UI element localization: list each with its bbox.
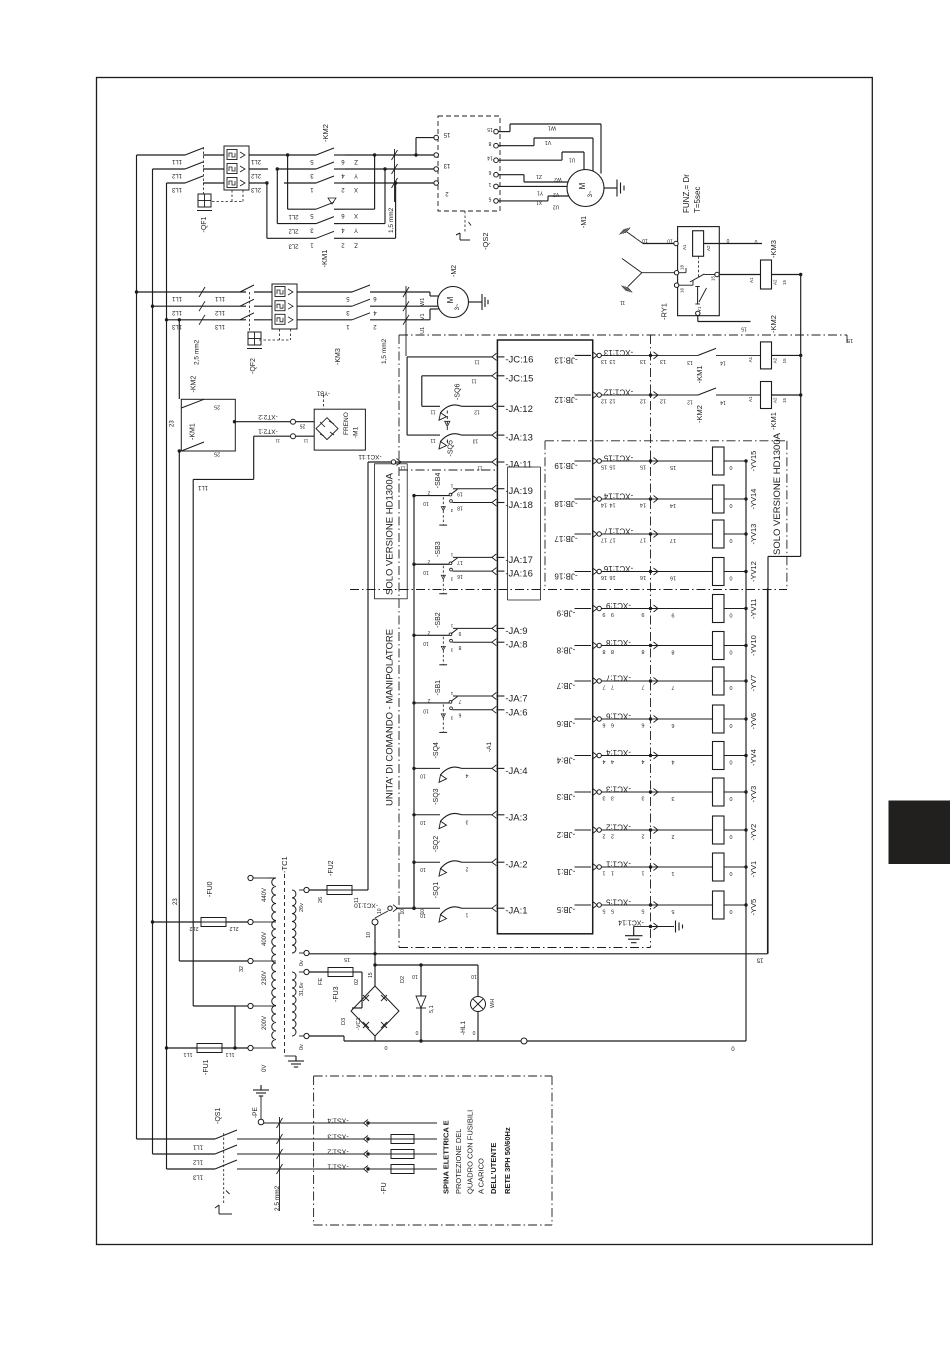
svg-text:2: 2 bbox=[427, 697, 430, 703]
svg-text:-KM2: -KM2 bbox=[321, 124, 330, 142]
svg-text:A CARICO: A CARICO bbox=[477, 1158, 486, 1194]
svg-text:18: 18 bbox=[680, 264, 685, 270]
svg-text:-JA:12: -JA:12 bbox=[505, 404, 532, 415]
svg-text:10: 10 bbox=[642, 237, 648, 243]
svg-text:0: 0 bbox=[754, 238, 757, 244]
svg-text:1L1: 1L1 bbox=[192, 1144, 203, 1150]
svg-text:9: 9 bbox=[602, 611, 605, 617]
svg-text:X1: X1 bbox=[536, 199, 542, 205]
svg-text:-JA:7: -JA:7 bbox=[505, 694, 527, 705]
svg-text:7: 7 bbox=[671, 684, 674, 690]
svg-text:M: M bbox=[446, 296, 455, 303]
svg-text:A2: A2 bbox=[706, 245, 711, 251]
svg-text:-XC1:2: -XC1:2 bbox=[606, 823, 631, 832]
svg-text:-JA:11: -JA:11 bbox=[505, 460, 532, 471]
svg-text:-QF1: -QF1 bbox=[201, 216, 208, 232]
svg-text:-JB:4: -JB:4 bbox=[556, 756, 575, 765]
svg-text:17: 17 bbox=[609, 537, 615, 543]
svg-text:16: 16 bbox=[609, 574, 615, 580]
svg-text:1L3: 1L3 bbox=[192, 1174, 203, 1180]
svg-text:1L3: 1L3 bbox=[171, 186, 182, 192]
svg-text:2: 2 bbox=[671, 833, 674, 839]
svg-text:13: 13 bbox=[473, 438, 479, 444]
svg-text:19: 19 bbox=[457, 491, 463, 497]
svg-text:-TC1: -TC1 bbox=[280, 856, 289, 873]
svg-text:15: 15 bbox=[670, 464, 676, 470]
svg-text:2: 2 bbox=[427, 629, 430, 635]
svg-text:-JA:1: -JA:1 bbox=[505, 906, 527, 917]
svg-text:-YB1: -YB1 bbox=[316, 390, 330, 396]
svg-text:2,5 mm2: 2,5 mm2 bbox=[274, 1185, 281, 1211]
svg-text:0v: 0v bbox=[299, 1044, 305, 1050]
svg-text:11: 11 bbox=[400, 465, 405, 471]
svg-text:SOLO VERSIONE HD1300A: SOLO VERSIONE HD1300A bbox=[385, 472, 396, 595]
svg-text:10: 10 bbox=[420, 866, 426, 872]
svg-text:5: 5 bbox=[671, 908, 674, 914]
svg-text:1,5 mm2: 1,5 mm2 bbox=[388, 207, 395, 233]
svg-text:-KM1: -KM1 bbox=[320, 250, 329, 268]
svg-text:0: 0 bbox=[729, 649, 732, 655]
svg-text:14: 14 bbox=[720, 359, 726, 365]
svg-text:SPINA ELETTRICA E: SPINA ELETTRICA E bbox=[442, 1120, 451, 1194]
svg-text:-YV10: -YV10 bbox=[749, 635, 758, 656]
svg-text:V1: V1 bbox=[420, 313, 426, 320]
svg-text:2: 2 bbox=[427, 558, 430, 564]
svg-text:4: 4 bbox=[641, 758, 644, 764]
svg-text:0: 0 bbox=[729, 722, 732, 728]
svg-text:-JB:13: -JB:13 bbox=[554, 355, 578, 364]
svg-text:V1: V1 bbox=[545, 139, 552, 145]
svg-text:-JB:1: -JB:1 bbox=[556, 867, 575, 876]
svg-text:25: 25 bbox=[300, 423, 306, 429]
svg-text:-JB:17: -JB:17 bbox=[554, 534, 578, 543]
svg-text:-JA:13: -JA:13 bbox=[505, 433, 532, 444]
svg-text:-KM2: -KM2 bbox=[191, 376, 198, 393]
svg-text:-JB:18: -JB:18 bbox=[554, 499, 578, 508]
svg-text:Y: Y bbox=[354, 172, 358, 178]
svg-text:32: 32 bbox=[239, 966, 245, 972]
svg-text:-JA:4: -JA:4 bbox=[505, 766, 527, 777]
svg-text:-PE: -PE bbox=[252, 1107, 259, 1119]
svg-text:A2: A2 bbox=[773, 357, 778, 363]
svg-text:-JC:15: -JC:15 bbox=[505, 373, 533, 384]
svg-text:W1: W1 bbox=[548, 125, 556, 131]
svg-text:-XC1:6: -XC1:6 bbox=[606, 712, 631, 721]
svg-text:1: 1 bbox=[602, 870, 605, 876]
svg-text:-YV12: -YV12 bbox=[749, 561, 758, 582]
svg-text:1L1: 1L1 bbox=[197, 484, 208, 490]
svg-text:13: 13 bbox=[687, 359, 693, 365]
svg-text:-JB:2: -JB:2 bbox=[556, 830, 575, 839]
svg-text:4: 4 bbox=[671, 759, 674, 765]
svg-text:11: 11 bbox=[471, 377, 476, 383]
svg-text:6: 6 bbox=[488, 169, 491, 175]
svg-text:10: 10 bbox=[420, 772, 426, 778]
svg-text:0: 0 bbox=[415, 1029, 418, 1035]
svg-text:SOLO VERSIONE HD1300A: SOLO VERSIONE HD1300A bbox=[772, 432, 783, 555]
svg-text:A1: A1 bbox=[748, 396, 753, 402]
svg-text:26: 26 bbox=[318, 897, 324, 903]
svg-text:X: X bbox=[354, 212, 358, 218]
svg-text:25: 25 bbox=[214, 451, 220, 457]
svg-text:-JA:9: -JA:9 bbox=[505, 626, 527, 637]
svg-text:14: 14 bbox=[601, 502, 607, 508]
svg-text:10: 10 bbox=[420, 819, 426, 825]
svg-text:-KM1: -KM1 bbox=[695, 365, 704, 383]
svg-text:2L2: 2L2 bbox=[189, 925, 198, 931]
svg-text:-KM3: -KM3 bbox=[335, 348, 342, 365]
svg-text:6: 6 bbox=[458, 712, 461, 718]
svg-text:-KM3: -KM3 bbox=[769, 240, 778, 258]
svg-text:15: 15 bbox=[711, 275, 716, 281]
svg-text:15: 15 bbox=[368, 972, 374, 978]
svg-text:-XC1:4: -XC1:4 bbox=[606, 748, 631, 757]
svg-text:9: 9 bbox=[641, 611, 644, 617]
svg-text:1L1: 1L1 bbox=[214, 295, 225, 301]
svg-text:15: 15 bbox=[741, 326, 747, 332]
svg-text:0: 0 bbox=[384, 1044, 387, 1050]
svg-text:15: 15 bbox=[847, 337, 853, 343]
svg-text:-XS1:2: -XS1:2 bbox=[327, 1148, 349, 1155]
svg-text:440V: 440V bbox=[262, 888, 268, 902]
svg-text:Z: Z bbox=[354, 158, 358, 164]
svg-text:-VC1: -VC1 bbox=[356, 1017, 362, 1030]
svg-text:17: 17 bbox=[670, 537, 676, 543]
svg-text:-KM1: -KM1 bbox=[190, 423, 197, 440]
svg-text:200V: 200V bbox=[262, 1016, 268, 1030]
svg-text:-SB3: -SB3 bbox=[435, 541, 442, 557]
svg-text:-JA:8: -JA:8 bbox=[505, 640, 527, 651]
svg-text:9: 9 bbox=[458, 630, 461, 636]
svg-text:U1: U1 bbox=[569, 157, 576, 163]
svg-text:8: 8 bbox=[488, 140, 491, 146]
svg-text:230V: 230V bbox=[262, 971, 268, 985]
svg-text:-XC1:9: -XC1:9 bbox=[606, 601, 631, 610]
svg-text:11: 11 bbox=[303, 439, 308, 444]
svg-text:10: 10 bbox=[366, 932, 372, 938]
svg-text:-JB:8: -JB:8 bbox=[556, 646, 575, 655]
svg-text:0: 0 bbox=[729, 908, 732, 914]
svg-text:1L1: 1L1 bbox=[171, 295, 182, 301]
svg-text:0: 0 bbox=[729, 833, 732, 839]
svg-text:-YV15: -YV15 bbox=[749, 451, 758, 472]
svg-text:15: 15 bbox=[782, 397, 787, 403]
svg-text:-XS1:4: -XS1:4 bbox=[327, 1117, 349, 1124]
svg-text:-XC1:14: -XC1:14 bbox=[603, 492, 633, 501]
svg-text:0: 0 bbox=[472, 1029, 475, 1035]
svg-text:8: 8 bbox=[458, 644, 461, 650]
svg-text:-RY1: -RY1 bbox=[660, 303, 669, 320]
svg-text:10: 10 bbox=[412, 973, 418, 979]
svg-text:1L3: 1L3 bbox=[214, 323, 225, 329]
svg-text:1: 1 bbox=[611, 870, 614, 876]
svg-text:-FU0: -FU0 bbox=[207, 881, 214, 897]
svg-text:16: 16 bbox=[640, 574, 646, 580]
svg-text:-A1: -A1 bbox=[486, 742, 493, 753]
svg-text:0: 0 bbox=[729, 759, 732, 765]
svg-text:5: 5 bbox=[488, 195, 491, 201]
svg-text:-XC1:17: -XC1:17 bbox=[603, 527, 633, 536]
svg-text:RETE 3PH 50/60Hz: RETE 3PH 50/60Hz bbox=[503, 1127, 512, 1194]
svg-text:2L3: 2L3 bbox=[288, 242, 299, 248]
svg-text:12: 12 bbox=[474, 409, 480, 415]
svg-text:PROTEZIONE DEL: PROTEZIONE DEL bbox=[454, 1129, 463, 1194]
svg-text:13: 13 bbox=[640, 358, 646, 364]
svg-text:400V: 400V bbox=[262, 932, 268, 946]
svg-text:-QF2: -QF2 bbox=[250, 358, 257, 374]
svg-text:-XC1:7: -XC1:7 bbox=[606, 674, 631, 683]
svg-text:2L2: 2L2 bbox=[250, 172, 261, 178]
svg-text:31,6v: 31,6v bbox=[299, 982, 305, 996]
svg-text:2: 2 bbox=[465, 866, 468, 872]
svg-text:10: 10 bbox=[423, 569, 429, 575]
svg-text:-YV14: -YV14 bbox=[749, 489, 758, 510]
svg-text:4: 4 bbox=[602, 758, 605, 764]
svg-text:0v: 0v bbox=[299, 960, 305, 966]
svg-text:D3: D3 bbox=[341, 1018, 347, 1025]
svg-text:FE: FE bbox=[318, 978, 324, 985]
svg-text:11: 11 bbox=[430, 437, 435, 443]
svg-text:A1: A1 bbox=[748, 356, 753, 362]
svg-text:-XT2:2: -XT2:2 bbox=[258, 413, 278, 420]
svg-text:12: 12 bbox=[660, 398, 666, 404]
svg-text:FRENO: FRENO bbox=[343, 412, 350, 435]
svg-text:T=5sec: T=5sec bbox=[693, 187, 702, 213]
svg-text:14: 14 bbox=[640, 502, 646, 508]
svg-text:0: 0 bbox=[729, 684, 732, 690]
svg-text:5: 5 bbox=[641, 908, 644, 914]
svg-text:-XS1:3: -XS1:3 bbox=[327, 1133, 349, 1140]
svg-text:9: 9 bbox=[671, 612, 674, 618]
svg-text:-JA:19: -JA:19 bbox=[505, 486, 532, 497]
svg-text:-SB4: -SB4 bbox=[435, 473, 442, 489]
svg-text:-XC1:13: -XC1:13 bbox=[603, 348, 633, 357]
svg-text:Y: Y bbox=[354, 227, 358, 233]
svg-text:8: 8 bbox=[671, 649, 674, 655]
svg-text:5: 5 bbox=[611, 908, 614, 914]
svg-text:-YV3: -YV3 bbox=[749, 786, 758, 803]
svg-text:1L2: 1L2 bbox=[214, 309, 225, 315]
svg-text:-XC1:15: -XC1:15 bbox=[603, 454, 633, 463]
svg-text:-HL1: -HL1 bbox=[460, 1021, 467, 1035]
svg-text:10: 10 bbox=[667, 238, 673, 244]
svg-text:1: 1 bbox=[465, 912, 468, 918]
svg-text:-JA:3: -JA:3 bbox=[505, 812, 527, 823]
svg-text:11: 11 bbox=[474, 359, 479, 365]
svg-text:1L3: 1L3 bbox=[171, 323, 182, 329]
svg-text:17: 17 bbox=[640, 537, 646, 543]
svg-text:15: 15 bbox=[609, 464, 615, 470]
svg-text:14: 14 bbox=[670, 502, 676, 508]
svg-text:11: 11 bbox=[354, 897, 360, 903]
svg-text:-KM1: -KM1 bbox=[769, 412, 778, 430]
svg-text:-M1: -M1 bbox=[353, 426, 360, 438]
svg-text:2L2: 2L2 bbox=[288, 228, 299, 234]
svg-text:-QS1: -QS1 bbox=[215, 1108, 222, 1124]
svg-text:-FU3: -FU3 bbox=[333, 986, 340, 1002]
svg-text:-SQ6: -SQ6 bbox=[455, 384, 462, 400]
svg-text:-KM2: -KM2 bbox=[769, 315, 778, 333]
svg-text:15: 15 bbox=[640, 464, 646, 470]
svg-text:10: 10 bbox=[423, 640, 429, 646]
svg-text:D2: D2 bbox=[400, 976, 406, 983]
svg-text:13: 13 bbox=[660, 358, 666, 364]
svg-text:17: 17 bbox=[601, 537, 607, 543]
svg-text:16: 16 bbox=[457, 573, 463, 579]
svg-text:6: 6 bbox=[611, 722, 614, 728]
svg-text:-SQ5: -SQ5 bbox=[448, 440, 455, 456]
svg-text:15: 15 bbox=[782, 358, 787, 364]
svg-text:Y1: Y1 bbox=[537, 190, 543, 196]
svg-text:2L3: 2L3 bbox=[250, 186, 261, 192]
svg-text:4: 4 bbox=[611, 758, 614, 764]
svg-text:7: 7 bbox=[641, 684, 644, 690]
svg-text:-JC:16: -JC:16 bbox=[505, 354, 533, 365]
svg-text:3: 3 bbox=[602, 795, 605, 801]
svg-text:-JA:2: -JA:2 bbox=[505, 860, 527, 871]
svg-text:QUADRO CON FUSIBILI: QUADRO CON FUSIBILI bbox=[466, 1110, 475, 1194]
svg-text:6: 6 bbox=[671, 722, 674, 728]
svg-text:7: 7 bbox=[602, 684, 605, 690]
svg-text:0: 0 bbox=[729, 870, 732, 876]
svg-text:16: 16 bbox=[670, 575, 676, 581]
svg-text:2: 2 bbox=[611, 833, 614, 839]
svg-text:10: 10 bbox=[377, 908, 383, 914]
svg-text:WH: WH bbox=[490, 999, 496, 1008]
svg-text:15: 15 bbox=[344, 956, 350, 962]
svg-text:0: 0 bbox=[729, 537, 732, 543]
svg-text:25: 25 bbox=[214, 404, 220, 410]
svg-text:02: 02 bbox=[354, 979, 360, 985]
svg-text:-JA:6: -JA:6 bbox=[505, 707, 527, 718]
svg-text:12: 12 bbox=[609, 398, 615, 404]
svg-text:0: 0 bbox=[726, 237, 729, 243]
svg-text:Z: Z bbox=[354, 241, 358, 247]
svg-text:23: 23 bbox=[173, 898, 179, 905]
svg-text:14: 14 bbox=[609, 502, 615, 508]
svg-text:-YV4: -YV4 bbox=[749, 749, 758, 766]
svg-text:13: 13 bbox=[609, 358, 615, 364]
svg-text:-JB:16: -JB:16 bbox=[554, 572, 578, 581]
svg-text:-M2: -M2 bbox=[451, 265, 458, 277]
svg-text:-JB:12: -JB:12 bbox=[554, 395, 578, 404]
svg-text:W2: W2 bbox=[554, 176, 562, 182]
svg-text:U2: U2 bbox=[553, 204, 560, 210]
svg-text:26v: 26v bbox=[299, 903, 305, 912]
svg-text:1L1: 1L1 bbox=[183, 1051, 192, 1057]
svg-text:2L1: 2L1 bbox=[288, 213, 299, 219]
svg-text:-XC1:11: -XC1:11 bbox=[358, 453, 382, 460]
svg-text:10: 10 bbox=[423, 707, 429, 713]
svg-text:-JB:3: -JB:3 bbox=[556, 792, 575, 801]
svg-text:12: 12 bbox=[687, 399, 693, 405]
svg-text:11: 11 bbox=[477, 465, 482, 471]
svg-text:-JB:7: -JB:7 bbox=[556, 681, 575, 690]
svg-text:1: 1 bbox=[488, 181, 491, 187]
svg-text:-YV1: -YV1 bbox=[749, 861, 758, 878]
svg-text:-YV6: -YV6 bbox=[749, 713, 758, 730]
svg-text:8: 8 bbox=[641, 648, 644, 654]
svg-text:-SQ3: -SQ3 bbox=[433, 788, 440, 804]
svg-text:1L2: 1L2 bbox=[171, 309, 182, 315]
svg-text:16: 16 bbox=[680, 287, 685, 293]
svg-text:-KM2: -KM2 bbox=[695, 405, 704, 423]
svg-text:9: 9 bbox=[611, 611, 614, 617]
svg-text:1: 1 bbox=[641, 870, 644, 876]
svg-text:-XT2:1: -XT2:1 bbox=[258, 428, 278, 435]
svg-text:7: 7 bbox=[611, 684, 614, 690]
svg-text:W1: W1 bbox=[420, 298, 426, 306]
svg-text:11: 11 bbox=[620, 299, 625, 305]
svg-text:10: 10 bbox=[400, 909, 406, 915]
svg-text:13: 13 bbox=[601, 358, 607, 364]
svg-text:-JA:17: -JA:17 bbox=[505, 555, 532, 566]
svg-text:2: 2 bbox=[602, 833, 605, 839]
svg-text:1L2: 1L2 bbox=[171, 172, 182, 178]
svg-text:11: 11 bbox=[275, 439, 280, 444]
svg-text:-YV2: -YV2 bbox=[749, 824, 758, 841]
svg-text:-YV13: -YV13 bbox=[749, 524, 758, 545]
svg-text:-SQ1: -SQ1 bbox=[433, 882, 440, 898]
svg-text:2L2: 2L2 bbox=[229, 925, 238, 931]
svg-text:0: 0 bbox=[729, 464, 732, 470]
svg-text:0V: 0V bbox=[262, 1065, 268, 1072]
svg-text:16: 16 bbox=[601, 574, 607, 580]
svg-text:10: 10 bbox=[471, 973, 477, 979]
svg-text:12: 12 bbox=[640, 398, 646, 404]
svg-text:A2: A2 bbox=[773, 279, 778, 285]
svg-text:UNITA' DI COMANDO - MANIPOLATO: UNITA' DI COMANDO - MANIPOLATORE bbox=[385, 629, 396, 806]
svg-text:4: 4 bbox=[465, 772, 468, 778]
svg-text:15: 15 bbox=[601, 464, 607, 470]
svg-text:DELL'UTENTE: DELL'UTENTE bbox=[489, 1143, 498, 1194]
svg-text:-SQ4: -SQ4 bbox=[433, 742, 440, 758]
svg-text:15: 15 bbox=[487, 126, 493, 132]
svg-text:0: 0 bbox=[729, 502, 732, 508]
svg-text:-YV5: -YV5 bbox=[749, 899, 758, 916]
svg-text:3: 3 bbox=[671, 795, 674, 801]
svg-text:2: 2 bbox=[427, 490, 430, 496]
svg-text:-JB:6: -JB:6 bbox=[556, 719, 575, 728]
svg-text:X: X bbox=[354, 186, 358, 192]
svg-text:10: 10 bbox=[420, 909, 426, 915]
svg-text:17: 17 bbox=[457, 559, 463, 565]
svg-text:15: 15 bbox=[782, 279, 787, 285]
svg-text:-XS1:1: -XS1:1 bbox=[327, 1163, 349, 1170]
svg-text:14: 14 bbox=[720, 399, 726, 405]
svg-text:-FU1: -FU1 bbox=[203, 1059, 210, 1075]
svg-text:-XC1:1: -XC1:1 bbox=[606, 860, 631, 869]
svg-text:-XC1:3: -XC1:3 bbox=[606, 785, 631, 794]
svg-text:15: 15 bbox=[756, 957, 763, 963]
svg-text:1L2: 1L2 bbox=[192, 1159, 203, 1165]
svg-text:-YV7: -YV7 bbox=[749, 675, 758, 692]
svg-text:8: 8 bbox=[611, 648, 614, 654]
svg-text:-XC1:12: -XC1:12 bbox=[603, 388, 633, 397]
svg-text:-JB:5: -JB:5 bbox=[556, 905, 575, 914]
svg-text:U1: U1 bbox=[420, 327, 426, 334]
svg-text:11: 11 bbox=[430, 408, 435, 414]
svg-text:0: 0 bbox=[729, 575, 732, 581]
svg-text:-FU2: -FU2 bbox=[328, 860, 335, 876]
svg-text:5,1: 5,1 bbox=[429, 1005, 435, 1013]
svg-text:-XC1:8: -XC1:8 bbox=[606, 638, 631, 647]
svg-text:M: M bbox=[578, 182, 587, 189]
svg-text:0: 0 bbox=[729, 795, 732, 801]
svg-text:-FU: -FU bbox=[381, 1182, 388, 1194]
svg-text:15: 15 bbox=[443, 131, 450, 137]
svg-text:2,5 mm2: 2,5 mm2 bbox=[194, 339, 201, 365]
